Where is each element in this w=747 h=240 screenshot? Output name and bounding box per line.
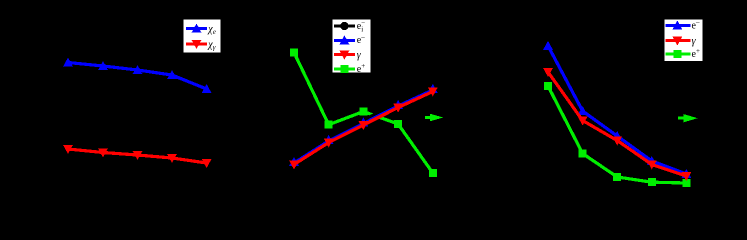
panel3 curve e- (blue, up triangles) xyxy=(543,41,691,178)
panel3 legend box xyxy=(664,19,703,62)
panel2 legend box xyxy=(332,19,371,73)
panel2 curve e- (blue, up triangles) xyxy=(289,84,438,166)
panel1 legend box xyxy=(183,19,221,53)
panel2 legend entry gamma (red triangle) xyxy=(334,50,362,61)
panel2 curve e+ (green, squares) xyxy=(290,49,437,178)
panel2 legend entry e+ (green square) xyxy=(334,62,365,75)
panel1 curve chi_e (blue, up triangles) xyxy=(63,58,212,94)
panel3 green arrow annotation xyxy=(678,114,698,122)
panel3 legend entry gamma (red triangle) xyxy=(665,36,696,47)
panel3 legend entry e- (blue triangle) xyxy=(665,18,700,31)
panel3 curve gamma (red, down triangles) xyxy=(543,68,691,181)
panel3 curve e+ (green, squares) xyxy=(544,82,690,187)
panel2 legend entry e-_i (black circle) xyxy=(334,19,365,34)
panel2 green arrow annotation xyxy=(425,114,444,121)
panel2 curve gamma (red, down triangles) xyxy=(289,87,438,169)
panel1 curve chi_gamma (red, down triangles) xyxy=(63,145,212,168)
panel2 legend entry e- (blue triangle) xyxy=(334,33,365,46)
panel2 curve e-_i (black, circles, invisible on black bg) xyxy=(290,83,437,165)
panel1 legend entry chi_gamma xyxy=(186,39,216,51)
panel1 legend entry chi_e xyxy=(186,24,216,36)
panel3 legend entry e+ (green square) xyxy=(665,47,700,60)
